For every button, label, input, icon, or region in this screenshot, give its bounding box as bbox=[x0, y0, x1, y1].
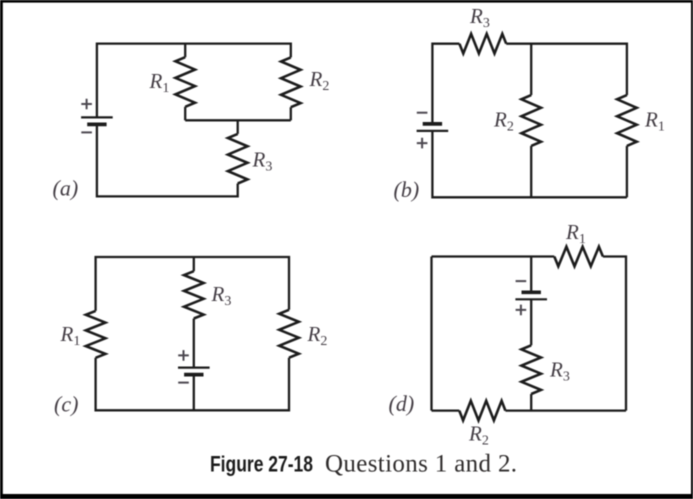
battery B (a) bbox=[81, 99, 113, 133]
resistor R1 (c) bbox=[86, 311, 106, 358]
frame top bbox=[0, 0, 693, 3]
wire: R1 top lead, top rail, R2 top lead (c) bbox=[96, 257, 289, 311]
battery B (d) bbox=[515, 281, 547, 315]
wire: top rail, R1 top lead (b) bbox=[506, 44, 627, 95]
node: circuit (d) bbox=[389, 220, 627, 449]
svg-text:Figure 27-18: Figure 27-18 bbox=[210, 452, 313, 477]
resistor R3 (c) bbox=[184, 271, 204, 318]
wire: battery top lead, top-left rail (b) bbox=[432, 44, 459, 124]
battery B (b) bbox=[417, 113, 449, 149]
wire: top-right rail, right rail (d) bbox=[603, 257, 626, 411]
wire: battery bottom lead (c) bbox=[193, 375, 195, 411]
wire: R3 bottom lead, bottom rail, battery bottom lead (a) bbox=[97, 125, 238, 197]
resistor R3 (d) bbox=[521, 345, 541, 394]
wire: bottom-left lead (d) bbox=[432, 409, 460, 411]
wire: R3 bottom lead (d) bbox=[530, 394, 532, 411]
wire: R2 bottom lead (a) bbox=[290, 107, 292, 120]
node: circuit (b) bbox=[394, 4, 665, 202]
node: circuit (a) bbox=[53, 44, 330, 201]
svg-text:(b): (b) bbox=[394, 177, 420, 202]
resistor R3 (a) bbox=[228, 134, 248, 184]
wire: R3 top lead (a) bbox=[237, 120, 239, 134]
wire: battery top lead, top rail, R2 top lead (a) bbox=[97, 44, 291, 118]
resistor R1 (a) bbox=[175, 57, 195, 107]
resistor R1 (d) bbox=[554, 247, 603, 267]
frame right bbox=[691, 0, 693, 499]
wire: middle rail (a) bbox=[185, 119, 291, 121]
node: circuit (c) bbox=[54, 257, 327, 417]
wire: R1 bottom lead (a) bbox=[184, 107, 186, 121]
svg-text:(c): (c) bbox=[54, 392, 78, 417]
wire: R1 top lead (a) bbox=[184, 44, 186, 58]
wire: battery top lead (d) bbox=[530, 257, 532, 293]
wire: R1 bottom lead, bottom rail, R2 bottom lead (c) bbox=[96, 358, 289, 411]
wire: bottom rail (d) bbox=[505, 409, 626, 411]
svg-text:(a): (a) bbox=[53, 176, 79, 201]
svg-text:(d): (d) bbox=[389, 391, 415, 416]
wire: R1 bottom lead (b) bbox=[626, 146, 628, 197]
resistor R3 (b) bbox=[459, 34, 506, 54]
svg-text:Questions 1 and 2.: Questions 1 and 2. bbox=[325, 451, 517, 478]
battery B (c) bbox=[178, 350, 210, 383]
resistor R1 (b) bbox=[617, 95, 637, 146]
frame bottom bbox=[0, 494, 693, 499]
wire: R3 top lead (c) bbox=[193, 257, 195, 271]
wire: R2 bottom lead (b) bbox=[530, 146, 532, 197]
wire: R3 to battery (c) bbox=[193, 319, 195, 368]
resistor R2 (c) bbox=[279, 310, 299, 358]
wire: top-left rail (d) bbox=[432, 255, 555, 257]
resistor R2 (a) bbox=[281, 57, 301, 107]
resistor R2 (b) bbox=[521, 95, 541, 146]
wire: R2 top lead (b) bbox=[530, 44, 532, 95]
resistor R2 (d) bbox=[459, 401, 505, 421]
wire: left rail (d) bbox=[430, 257, 432, 411]
wire: battery to R3 (d) bbox=[530, 299, 532, 345]
frame left bbox=[0, 0, 3, 499]
wire: bottom rail, battery bottom lead (b) bbox=[432, 131, 627, 197]
